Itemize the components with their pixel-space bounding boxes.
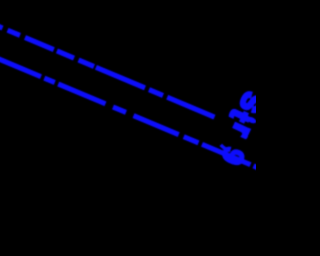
wire: lower dash l1: [0, 58, 41, 77]
wire: lower dash l8: [254, 166, 261, 169]
wire: upper dash u4: [79, 60, 95, 67]
wire: lower dash l7: [202, 144, 251, 164]
wire: upper dash u0: [0, 25, 3, 28]
wire: upper dash u2: [25, 38, 54, 50]
wire: lower dash l3: [58, 84, 105, 104]
wire: lower dash l6: [184, 137, 199, 143]
upper street: dashed line y=27+0.42x: [0, 25, 215, 117]
wire: upper dash u1: [8, 30, 21, 35]
map tile: dark background with dashed blue street lines and blue street label: [0, 0, 256, 256]
tail hook of digit 9: [221, 145, 228, 150]
wire: lower dash l5: [134, 116, 179, 135]
lower street: dashed line y=59.5+0.42x: [0, 58, 260, 169]
wire: lower dash l4: [113, 107, 126, 112]
wire: upper dash u3: [57, 51, 74, 58]
wire: upper dash u7: [167, 97, 214, 117]
street label "str 9" rotated: [214, 88, 269, 170]
wire: lower dash l2: [44, 78, 55, 82]
wire: upper dash u5: [96, 67, 145, 88]
small label ink fragment at right edge: [246, 115, 257, 124]
wire: upper dash u6: [149, 90, 163, 96]
svg-text:9: 9: [214, 142, 251, 170]
